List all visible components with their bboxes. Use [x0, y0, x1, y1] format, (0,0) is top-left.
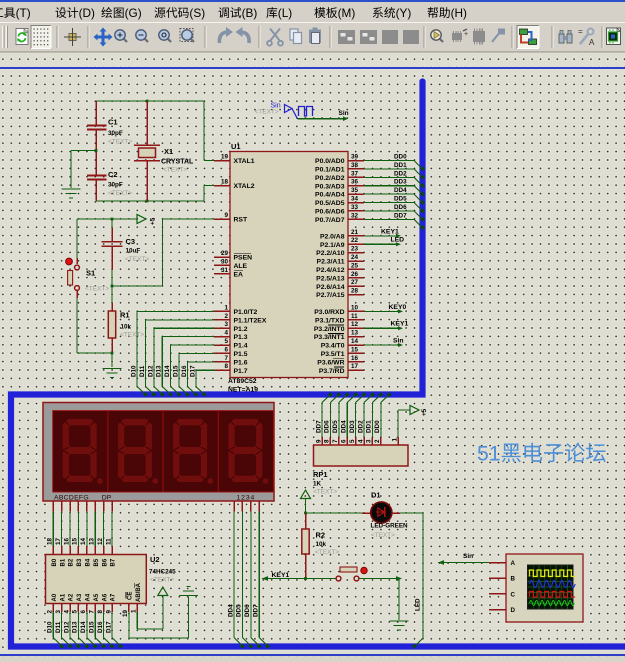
wire display segment pin to U2 B0: [47, 501, 54, 555]
svg-text:P3.3/INT1: P3.3/INT1: [314, 334, 345, 341]
svg-text:7: 7: [89, 610, 96, 614]
wire RP1 pin 2 net DD0 to bus: [374, 392, 392, 445]
svg-text:10: 10: [351, 304, 359, 311]
svg-text:DD6: DD6: [324, 420, 331, 433]
svg-text:P0.3/AD3: P0.3/AD3: [315, 183, 345, 190]
svg-text:DD6: DD6: [244, 604, 251, 617]
svg-text:P2.1/A9: P2.1/A9: [320, 242, 345, 249]
pin 18 XTAL2: [214, 179, 255, 191]
svg-text:ABCDEFG: ABCDEFG: [54, 495, 89, 502]
svg-text:A7: A7: [111, 593, 117, 601]
svg-text:6: 6: [341, 439, 348, 443]
svg-text:XTAL2: XTAL2: [234, 183, 255, 190]
svg-text:23: 23: [351, 246, 359, 253]
pin 8 P1.7: [214, 363, 248, 375]
svg-text:AT89C52: AT89C52: [228, 378, 257, 385]
wire P1.2 net D12 to bus: [147, 328, 214, 397]
pin 35 P0.4/AD4: [315, 187, 364, 199]
svg-text:P1.0/T2: P1.0/T2: [234, 309, 258, 316]
power +5 terminal RP1: [410, 406, 428, 417]
switch KEY1: [336, 567, 367, 581]
svg-text:B0: B0: [52, 558, 58, 566]
svg-text:(D): (D): [79, 6, 95, 20]
display segment letter labels: [54, 495, 112, 502]
pin 28 P2.7/A15: [316, 288, 364, 300]
node R2 KEY1 junction: [304, 577, 307, 580]
svg-text:NET=A19: NET=A19: [228, 387, 258, 394]
wire U2 A6 net D16 to bus: [97, 604, 115, 649]
display digit 1: [53, 411, 108, 492]
toolbar gripper: [3, 26, 8, 48]
wire U2 A5 net D15 to bus: [89, 604, 107, 649]
svg-text:DP: DP: [102, 495, 112, 502]
svg-text:8: 8: [224, 363, 228, 370]
svg-text:36: 36: [351, 179, 359, 186]
toolbar pan icon: [94, 28, 113, 47]
oscilloscope body: [489, 554, 583, 622]
wire P3 net KEY0: [364, 304, 406, 314]
svg-text:35: 35: [351, 187, 359, 194]
svg-text:5: 5: [224, 338, 228, 345]
ground KEY1 section: [390, 621, 409, 630]
svg-text:<TEXT>: <TEXT>: [108, 190, 132, 197]
wire P0.1 net DD1 to bus: [364, 162, 425, 180]
pin 1 U2 ABBA: [131, 604, 138, 614]
svg-text:P3.1/TXD: P3.1/TXD: [315, 317, 345, 324]
svg-text:6: 6: [80, 610, 87, 614]
svg-text:D11: D11: [139, 365, 146, 377]
node RST tap junction: [111, 285, 114, 288]
pin 32 P0.7/AD7: [315, 212, 364, 224]
wire R1 to ground: [111, 353, 113, 367]
svg-text:A: A: [589, 38, 595, 47]
wire display digit 1 net DD4 to bus: [227, 501, 245, 649]
forum watermark text: [477, 443, 606, 466]
svg-text:A4: A4: [86, 593, 92, 601]
wire P1.1 net D11 to bus: [139, 320, 215, 397]
svg-text:C: C: [511, 591, 516, 598]
toolbar block copy icon: [338, 30, 355, 44]
toolbar make device icon: [452, 29, 468, 42]
toolbar zoom area icon: [180, 29, 194, 43]
svg-text:32: 32: [351, 212, 359, 219]
svg-text:<TEXT>: <TEXT>: [313, 489, 337, 496]
wire P1.4 net D14 to bus: [164, 345, 214, 397]
node X1 bottom junction: [146, 200, 149, 203]
wire P1.7 net D17 to bus: [189, 365, 214, 397]
svg-text:DD5: DD5: [394, 196, 407, 203]
svg-text:13: 13: [89, 537, 96, 545]
ground U2 section: [179, 587, 198, 596]
capacitor C3: [102, 219, 150, 286]
ground reset section: [103, 369, 122, 378]
toolbar grid button pressed: [31, 26, 51, 49]
wire U2 pin1 to power: [137, 596, 163, 629]
svg-text:D12: D12: [63, 621, 70, 633]
wire RST to pin9: [112, 219, 230, 286]
svg-text:P3.7/RD: P3.7/RD: [319, 368, 345, 375]
svg-text:<TEXT>: <TEXT>: [315, 549, 339, 556]
svg-text:DD2: DD2: [357, 420, 364, 433]
svg-text:P1.5: P1.5: [234, 351, 248, 358]
pin 9 RST: [214, 212, 248, 224]
svg-text:Sin: Sin: [393, 338, 404, 345]
svg-text:14: 14: [80, 537, 87, 545]
diode D1 LED-GREEN: [362, 491, 408, 540]
svg-text:15: 15: [351, 346, 359, 353]
wire Sin output: [297, 110, 348, 121]
toolbar decompose icon: [492, 29, 505, 43]
svg-text:A6: A6: [102, 593, 108, 601]
pin 30 ALE: [214, 258, 248, 270]
toolbar block move icon: [360, 30, 377, 44]
pin 1 P1.0/T2: [214, 304, 258, 316]
wire P1.0 net D10 to bus: [131, 311, 215, 397]
svg-text:17: 17: [351, 363, 359, 370]
wire P2 net KEY1: [364, 228, 401, 238]
svg-text:(B): (B): [242, 6, 258, 20]
svg-text:10uF: 10uF: [126, 248, 141, 255]
svg-text:1: 1: [224, 304, 228, 311]
svg-text:<TEXT>: <TEXT>: [120, 332, 144, 339]
wire U2 A7 net D17 to bus: [105, 604, 123, 649]
svg-text:P3.6/WR: P3.6/WR: [317, 359, 344, 366]
ground crystal section: [62, 189, 81, 198]
svg-text:P0.0/AD0: P0.0/AD0: [315, 158, 345, 165]
svg-text:12: 12: [351, 321, 359, 328]
wire RP1 pin 1 to power: [391, 410, 410, 445]
power +5 terminal RST: [137, 215, 157, 226]
pin 6 P1.5: [214, 346, 248, 358]
svg-text:(G): (G): [125, 6, 142, 20]
svg-text:DD5: DD5: [236, 604, 243, 617]
toolbar design explorer icon: [607, 28, 621, 45]
svg-text:DD7: DD7: [253, 604, 260, 617]
wire RP1 pin 8 net DD6 to bus: [324, 392, 342, 445]
svg-text:D10: D10: [47, 621, 54, 633]
svg-text:KEY1: KEY1: [381, 228, 399, 235]
toolbar property assignment icon: [578, 27, 595, 47]
svg-text:(Y): (Y): [396, 6, 412, 20]
svg-text:26: 26: [351, 271, 359, 278]
svg-text:=: =: [578, 27, 583, 36]
svg-text:10k: 10k: [316, 541, 327, 548]
svg-text:DD1: DD1: [366, 420, 373, 433]
toolbar zoom in icon: [115, 30, 127, 42]
svg-text:A3: A3: [77, 593, 83, 601]
wire display segment pin to U2 B5: [89, 501, 96, 555]
wire KEY1 net left arrow: [262, 572, 336, 581]
power +5 terminal U2: [158, 587, 168, 596]
node C3 top junction: [111, 218, 114, 221]
svg-text:1: 1: [391, 438, 398, 442]
svg-text:DD6: DD6: [394, 204, 407, 211]
svg-text:7: 7: [332, 439, 339, 443]
svg-text:DD1: DD1: [394, 162, 407, 169]
svg-text:A0: A0: [52, 593, 58, 601]
svg-text:9: 9: [315, 439, 322, 443]
toolbar block delete icon: [403, 30, 419, 44]
toolbar packaging icon: [473, 29, 485, 45]
pin 37 P0.2/AD2: [315, 170, 364, 182]
svg-text:3: 3: [366, 439, 373, 443]
wire D1 anode: [306, 512, 363, 514]
pin 21 P2.0/A8: [320, 229, 364, 241]
wire to crystal ground: [71, 151, 96, 189]
svg-text:38: 38: [351, 162, 359, 169]
svg-text:2: 2: [47, 610, 54, 614]
oscilloscope screen: [528, 565, 576, 609]
menu bar: [0, 2, 625, 22]
svg-text:1K: 1K: [313, 481, 322, 488]
svg-text:4: 4: [224, 330, 228, 337]
svg-text:Sin: Sin: [339, 110, 349, 117]
svg-text:P0.4/AD4: P0.4/AD4: [315, 192, 345, 199]
resistor R2: [302, 513, 340, 579]
svg-text:8: 8: [324, 439, 331, 443]
svg-text:B1: B1: [60, 558, 66, 566]
svg-text:PSEN: PSEN: [234, 255, 253, 262]
svg-text:D17: D17: [105, 621, 112, 633]
svg-text:18: 18: [221, 179, 229, 186]
wire P1.3 net D13 to bus: [156, 337, 215, 397]
svg-text:51: 51: [477, 443, 501, 466]
capacitor C1: [87, 101, 133, 151]
pin 15 P3.5/T1: [321, 346, 364, 358]
toolbar copy icon: [290, 29, 302, 44]
svg-text:D16: D16: [97, 621, 104, 633]
pin 17 P3.7/RD: [319, 363, 364, 375]
node R1 S1 junction: [111, 352, 114, 355]
svg-text:RP1: RP1: [313, 470, 328, 479]
power +5 terminal R2: [301, 490, 311, 513]
svg-text:P3.4/T0: P3.4/T0: [321, 343, 345, 350]
wire RP1 pin 5 net DD3 to bus: [349, 392, 367, 445]
svg-text:P2.7/A15: P2.7/A15: [316, 292, 345, 299]
pin 2 P1.1/T2EX: [214, 313, 267, 325]
svg-text:5: 5: [72, 610, 79, 614]
op-amp U1 microcontroller AT89C52 body: [228, 142, 348, 394]
svg-text:DD0: DD0: [394, 154, 407, 161]
crystal X1: [134, 101, 194, 201]
svg-text:(H): (H): [451, 6, 467, 20]
pin 12 P3.2/INT0: [314, 321, 364, 333]
pin 22 P2.1/A9: [320, 237, 364, 249]
svg-text:X1: X1: [164, 147, 173, 156]
svg-text:D11: D11: [55, 621, 62, 633]
wire display segment pin to U2 B3: [72, 501, 79, 555]
svg-text:<TEXT>: <TEXT>: [150, 577, 174, 584]
svg-text:D12: D12: [147, 365, 154, 377]
wire U2 A2 net D12 to bus: [63, 604, 81, 649]
svg-text:LED: LED: [415, 598, 422, 611]
wire U2 A1 net D11 to bus: [55, 604, 73, 649]
svg-text:RST: RST: [234, 217, 248, 224]
wire display segment pin to U2 B6: [97, 501, 104, 555]
svg-text:P3.0/RXD: P3.0/RXD: [314, 309, 344, 316]
buffer U2 74HC245 body: [46, 555, 177, 604]
svg-text:13: 13: [351, 330, 359, 337]
pin 10 P3.0/RXD: [314, 304, 364, 316]
svg-text:KEY1: KEY1: [391, 321, 409, 328]
pin 5 P1.4: [214, 338, 248, 350]
wire display digit 4 net DD7 to bus: [253, 501, 271, 649]
svg-text:DD4: DD4: [394, 187, 407, 194]
svg-text:KEY0: KEY0: [389, 304, 407, 311]
wire RP1 pin 3 net DD1 to bus: [366, 392, 384, 445]
wire RP1 pin 6 net DD4 to bus: [341, 392, 359, 445]
pin 39 P0.0/AD0: [315, 154, 364, 166]
svg-text:34: 34: [351, 196, 359, 203]
svg-text:11: 11: [105, 538, 112, 545]
wire U2 pin19 to ground: [129, 597, 189, 639]
svg-text:29: 29: [221, 250, 229, 257]
svg-text:28: 28: [351, 288, 359, 295]
svg-text:15: 15: [72, 537, 79, 545]
pin 7 P1.6: [214, 355, 248, 367]
resistor pack RP1 body: [313, 445, 408, 496]
svg-text:14: 14: [351, 338, 359, 345]
wire P0.6 net DD6 to bus: [364, 204, 425, 222]
pin 16 P3.6/WR: [317, 355, 364, 367]
wire P2 net LED: [364, 237, 404, 247]
svg-text:D15: D15: [89, 621, 96, 633]
svg-text:DD3: DD3: [349, 420, 356, 433]
display digit 2: [108, 411, 163, 492]
pin 14 P3.4/T0: [321, 338, 364, 350]
svg-text:31: 31: [221, 267, 229, 274]
svg-text:74HC245: 74HC245: [149, 569, 176, 576]
svg-text:25: 25: [351, 262, 359, 269]
svg-text:XTAL1: XTAL1: [234, 158, 255, 165]
svg-text:D14: D14: [164, 365, 171, 377]
svg-text:+5: +5: [421, 408, 428, 416]
svg-text:P1.2: P1.2: [234, 326, 248, 333]
svg-text:U2: U2: [150, 555, 160, 564]
svg-text:(S): (S): [189, 6, 205, 20]
svg-text:B5: B5: [94, 558, 100, 566]
pin 29 PSEN: [214, 250, 252, 262]
svg-text:P0.7/AD7: P0.7/AD7: [315, 217, 345, 224]
svg-text:A5: A5: [94, 593, 100, 601]
svg-text:B: B: [511, 576, 516, 583]
toolbar undo icon: [219, 27, 233, 43]
wire P0.0 net DD0 to bus: [364, 154, 425, 172]
svg-text:37: 37: [351, 170, 359, 177]
pin 24 P2.3/A11: [317, 254, 364, 266]
wire RP1 pin 4 net DD2 to bus: [357, 392, 375, 445]
svg-text:D14: D14: [80, 621, 87, 633]
svg-text:(L): (L): [278, 6, 292, 20]
svg-text:B7: B7: [111, 558, 117, 566]
svg-text:DD7: DD7: [315, 420, 322, 433]
wire display digit 3 net DD6 to bus: [244, 501, 262, 649]
pin 13 P3.3/INT1: [314, 330, 364, 342]
window title bar edge: [0, 0, 625, 2]
pin 34 P0.5/AD5: [315, 196, 364, 208]
svg-text:A1: A1: [60, 593, 66, 601]
svg-text:(T): (T): [16, 6, 31, 20]
svg-text:<TEXT>: <TEXT>: [108, 139, 132, 146]
svg-text:P2.6/A14: P2.6/A14: [316, 284, 345, 291]
wire KEY1 to ground: [359, 576, 402, 620]
U2 port labels: [52, 558, 142, 602]
svg-text:1234: 1234: [237, 495, 256, 502]
toolbar search icon: [559, 31, 572, 44]
svg-text:+5: +5: [150, 217, 157, 225]
svg-text:R1: R1: [120, 311, 130, 320]
svg-text:C1: C1: [108, 118, 118, 127]
node C1 C2 ground tap: [95, 149, 98, 152]
wire display segment pin to U2 B7: [105, 501, 112, 555]
svg-text:2: 2: [224, 313, 228, 320]
svg-text:2: 2: [374, 439, 381, 443]
svg-text:4: 4: [63, 610, 70, 614]
wire display digit 2 net DD5 to bus: [236, 501, 254, 649]
wire XTAL2 bottom net: [96, 186, 230, 201]
node X1 top junction: [146, 100, 149, 103]
svg-text:P1.3: P1.3: [234, 334, 248, 341]
capacitor C2: [87, 151, 133, 202]
pin 19 XTAL1: [214, 154, 255, 166]
svg-text:3: 3: [224, 321, 228, 328]
svg-text:A: A: [511, 560, 516, 567]
wire P1.5 net D15 to bus: [173, 353, 215, 397]
svg-text:(M): (M): [338, 6, 356, 20]
pin 19 U2 CE: [122, 604, 129, 618]
wire RP1 pin 9 net DD7 to bus: [315, 392, 333, 445]
svg-text:ALE: ALE: [234, 263, 248, 270]
svg-text:D: D: [511, 607, 516, 614]
pin 31 EA: [214, 267, 243, 279]
wire P0.7 net DD7 to bus: [364, 212, 425, 230]
svg-text:DD3: DD3: [394, 179, 407, 186]
toolbar pick parts icon: [431, 30, 443, 42]
svg-text:P1.4: P1.4: [234, 343, 248, 350]
svg-text:D15: D15: [173, 365, 180, 377]
pin 33 P0.6/AD6: [315, 204, 364, 216]
svg-text:CRYSTAL: CRYSTAL: [161, 159, 194, 166]
toolbar cut icon: [267, 29, 283, 46]
svg-text:17: 17: [55, 537, 62, 545]
toolbar block rotate icon: [382, 30, 398, 44]
wire U2 A4 net D14 to bus: [80, 604, 98, 649]
svg-text:P2.3/A11: P2.3/A11: [317, 259, 345, 266]
toolbar refresh icon: [16, 29, 28, 45]
svg-text:18: 18: [47, 537, 54, 545]
svg-text:+: +: [464, 31, 468, 38]
svg-text:LED-GREEN: LED-GREEN: [371, 523, 409, 530]
wire display segment pin to U2 B1: [55, 501, 62, 555]
toolbar zoom out icon: [136, 30, 148, 42]
svg-text:B6: B6: [102, 558, 108, 566]
svg-text:DD0: DD0: [374, 420, 381, 433]
sheet bottom border line: [0, 655, 625, 662]
svg-text:39: 39: [351, 154, 359, 161]
toolbar: [0, 22, 625, 52]
svg-text:CE: CE: [127, 592, 133, 600]
wire P0.4 net DD4 to bus: [364, 187, 425, 205]
pin 3 P1.2: [214, 321, 248, 333]
display digit 3: [163, 411, 218, 492]
toolbar zoom full icon: [159, 30, 171, 42]
svg-text:D10: D10: [131, 365, 138, 377]
toolbar redo icon: [236, 27, 250, 43]
svg-text:P2.2/A10: P2.2/A10: [316, 250, 345, 257]
pin 36 P0.3/AD3: [315, 179, 364, 191]
display digit 4: [218, 411, 273, 492]
svg-text:12: 12: [97, 537, 104, 545]
